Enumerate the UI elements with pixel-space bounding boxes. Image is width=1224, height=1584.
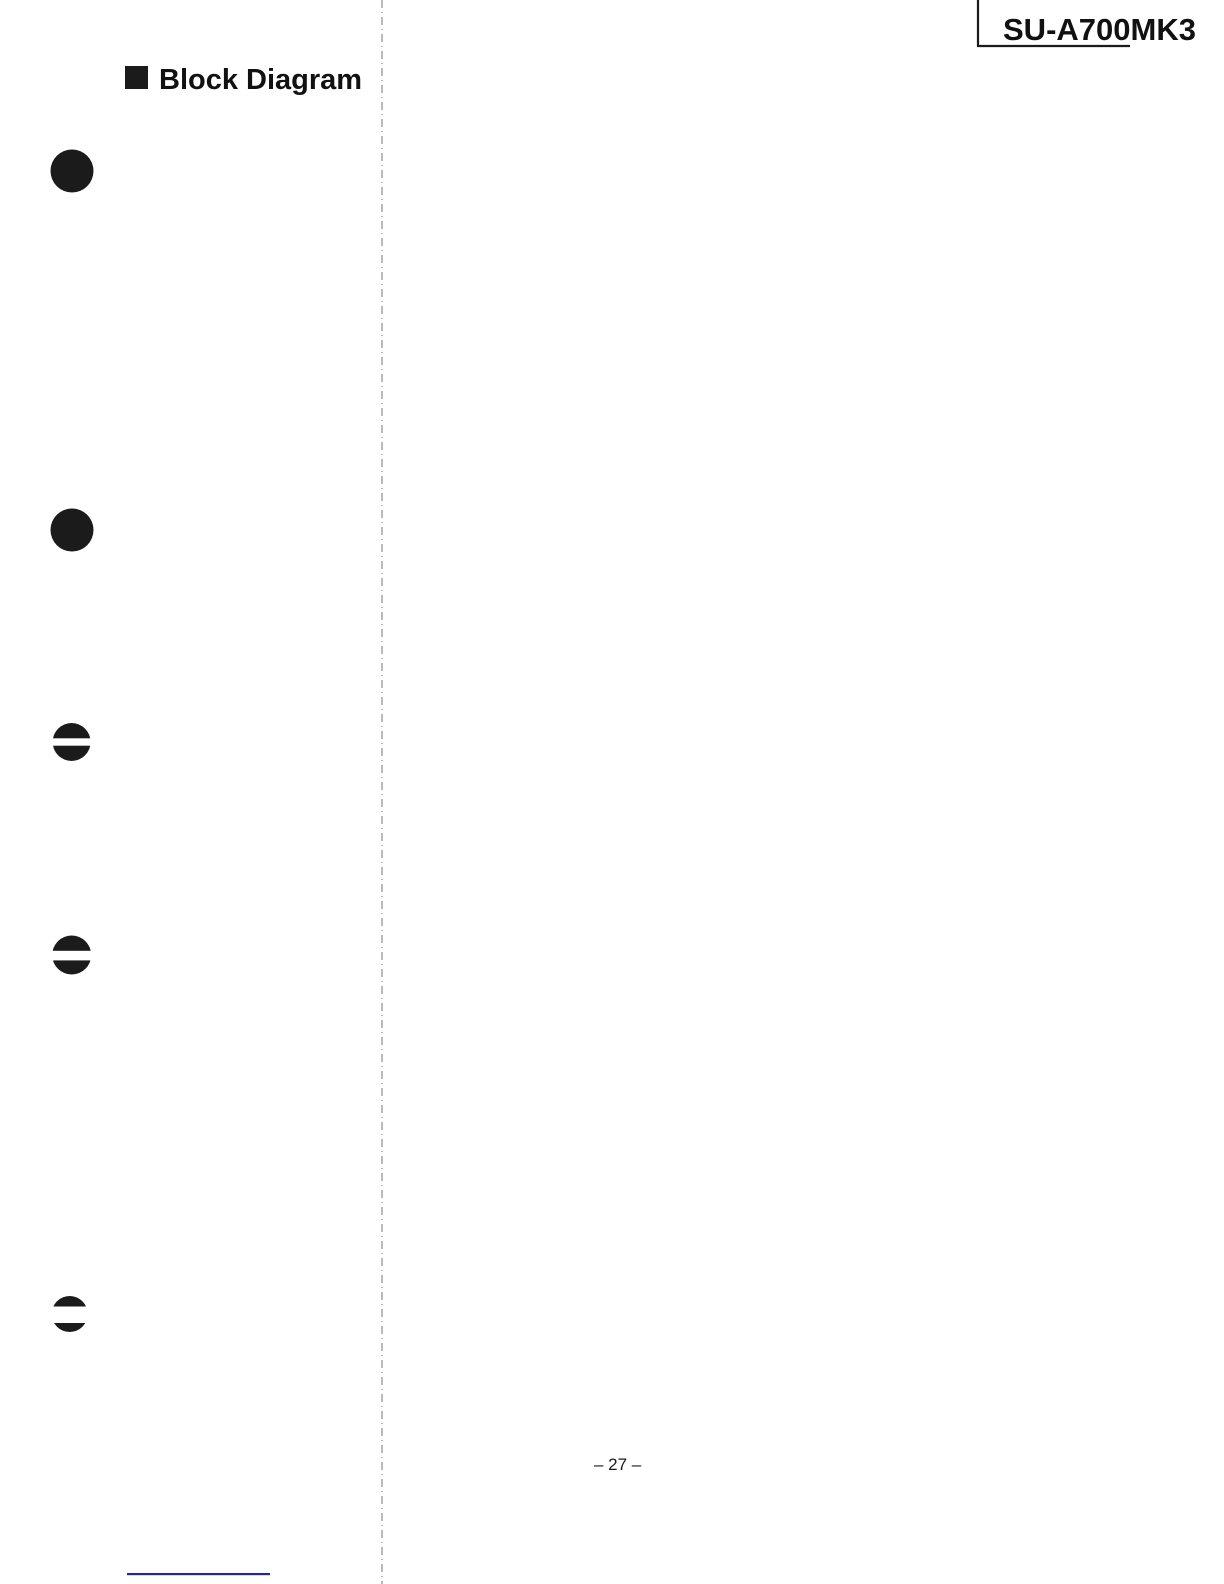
SECTION: output / speakers [0, 0, 1, 1]
SECTION: fan motor [0, 0, 1, 1]
heading Block Diagram [125, 64, 362, 96]
blue mark bottom left [127, 1573, 270, 1575]
SECTION: reset generator [0, 0, 1, 1]
SECTION: input selector [0, 0, 1, 1]
svg-text:SU-A700MK3: SU-A700MK3 [1003, 12, 1196, 47]
SECTION: power supply [0, 0, 1, 1]
SECTION: input jacks [0, 0, 1, 1]
SECTION: voltage amp / power amp [0, 0, 1, 1]
fold line [381, 0, 383, 1584]
title box SU-A700MK3 [978, 0, 1196, 47]
SECTION: phono amp [0, 0, 1, 1]
SECTION: micro computer [0, 0, 1, 1]
SECTION: tone amp [0, 0, 1, 1]
svg-text:– 27 –: – 27 – [594, 1455, 642, 1474]
SECTION: relays RL20x remote key [0, 0, 1, 1]
SECTION: buses [0, 0, 1, 1]
svg-text:Block Diagram: Block Diagram [159, 64, 362, 96]
binder hole dots [51, 150, 94, 193]
SECTION: volume motor drive [0, 0, 1, 1]
